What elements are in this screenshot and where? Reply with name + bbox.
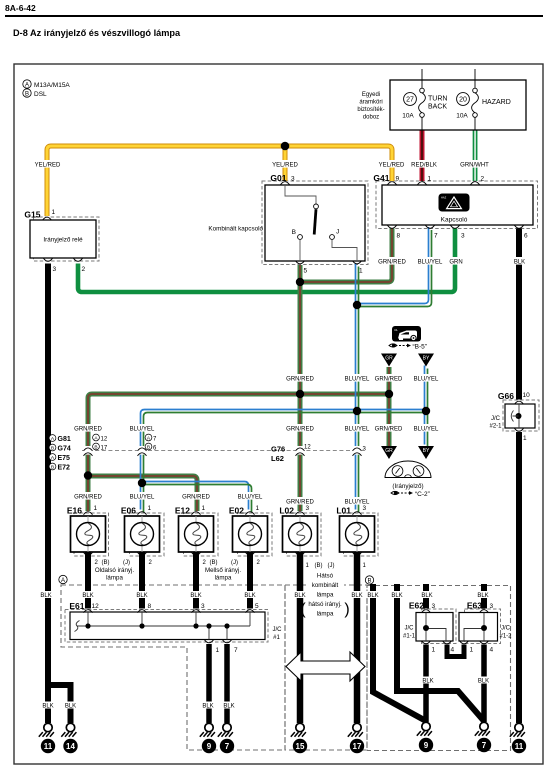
- svg-text:BY: BY: [423, 448, 430, 454]
- connector entry marks G01: [281, 182, 290, 185]
- svg-text:27: 27: [406, 97, 414, 104]
- svg-text:BLU/YEL: BLU/YEL: [238, 494, 263, 500]
- region B dashed boundary (DSL): [367, 586, 511, 751]
- svg-text:(B): (B): [102, 560, 110, 566]
- svg-text:9: 9: [396, 176, 400, 183]
- svg-text:lámpa: lámpa: [317, 611, 334, 618]
- wire label BLU/YEL (E06 drop): [128, 424, 156, 432]
- junction connector G66 box: [489, 391, 535, 442]
- svg-text:B: B: [51, 446, 54, 452]
- junction connector E62 box: [403, 601, 455, 654]
- wire label BLK (E61.1 lead): [201, 702, 215, 710]
- wire label BLK (E02 ground lead): [243, 591, 257, 599]
- svg-text:YEL/RED: YEL/RED: [35, 162, 61, 168]
- svg-text:3: 3: [201, 603, 205, 610]
- svg-text:G74: G74: [58, 445, 71, 452]
- lamp E02: [229, 505, 268, 552]
- connector pair G76/L62: [271, 445, 311, 464]
- ground 7 (E61): [218, 723, 234, 753]
- ground 11 right: [510, 723, 526, 753]
- connector list B G74: [49, 444, 71, 452]
- svg-text:(J): (J): [123, 560, 130, 566]
- wire label BLU/YEL (G41.7): [416, 257, 444, 265]
- fuse 20 HAZARD 10A: [456, 69, 511, 130]
- connector split dashed line (G81/G74/E75/E72 - G76/L62): [82, 450, 365, 452]
- pin note A12: [93, 434, 108, 442]
- ground 9 (E61): [200, 723, 216, 753]
- svg-text:GRN/RED: GRN/RED: [375, 426, 403, 432]
- wire label BLK (E62.3 stub): [420, 591, 434, 599]
- svg-text:doboz: doboz: [363, 115, 379, 121]
- svg-text:10A: 10A: [456, 113, 468, 120]
- wire label BLK (E63.3 stub): [476, 591, 490, 599]
- svg-text:BLK: BLK: [190, 593, 201, 599]
- svg-text:DSL: DSL: [34, 91, 47, 98]
- svg-text:3: 3: [432, 603, 436, 610]
- relay G15 box: [24, 209, 96, 273]
- svg-text:BLU/YEL: BLU/YEL: [130, 426, 155, 432]
- svg-text:A: A: [25, 82, 29, 88]
- svg-text:11: 11: [515, 742, 524, 751]
- wire label BLK (E63.4 lead): [477, 677, 491, 685]
- connector entry marks E61: [84, 610, 93, 613]
- svg-text:BLK: BLK: [294, 593, 305, 599]
- svg-text:#2-1: #2-1: [489, 424, 502, 430]
- wire label GRN/RED (E16): [74, 492, 102, 500]
- wire label BLU/YEL (L01): [343, 497, 371, 505]
- wire label BLU/YEL (L01 riser lower): [343, 424, 371, 432]
- bidirectional harness arrow: [286, 652, 365, 681]
- ground 17: [348, 723, 364, 753]
- svg-text:BLK: BLK: [65, 704, 76, 710]
- svg-text:GRN/RED: GRN/RED: [286, 499, 314, 505]
- svg-text:G41: G41: [373, 173, 389, 183]
- svg-text:3: 3: [363, 505, 367, 512]
- wire label BLK (E12 ground lead): [189, 591, 203, 599]
- wire BLK E06 to E61.8: [139, 552, 145, 609]
- rear lamp dashed boundary: [285, 585, 367, 750]
- svg-text:E75: E75: [58, 455, 71, 462]
- svg-text:GRN/RED: GRN/RED: [182, 494, 210, 500]
- svg-text:B: B: [367, 578, 371, 584]
- svg-text:10A: 10A: [402, 113, 414, 120]
- connector entry marks E62/E63: [422, 610, 431, 613]
- svg-text:14: 14: [66, 742, 75, 751]
- wire GRN/WHT (fuse 20 to G41.2): [474, 130, 477, 181]
- pin note B6: [145, 443, 157, 451]
- E63 dashed connector outline: [465, 609, 501, 644]
- svg-text:8: 8: [397, 233, 401, 240]
- svg-text:hátsó irányj.: hátsó irányj.: [308, 601, 342, 608]
- wire BLK G41.6 to G66.10: [516, 229, 522, 400]
- wire label GRN/RED (GR arrow upper): [375, 374, 403, 382]
- svg-text:1: 1: [94, 505, 98, 512]
- wire BLK G66.1 to ground 11 right: [516, 432, 522, 723]
- E61 dashed connector outline: [65, 610, 268, 643]
- svg-text:BLU/YEL: BLU/YEL: [345, 499, 370, 505]
- wire label BLU/YEL (BY arrow lower): [412, 424, 440, 432]
- svg-text:8: 8: [148, 603, 152, 610]
- svg-text:10: 10: [523, 392, 531, 399]
- svg-text:BLU/YEL: BLU/YEL: [414, 426, 439, 432]
- fuse 27 TURN BACK 10A: [402, 69, 447, 130]
- caption mellso iranyjelzo lampa: [205, 567, 241, 582]
- G41 dashed connector outline: [376, 181, 538, 229]
- svg-text:G76: G76: [271, 445, 285, 454]
- svg-text:BLK: BLK: [244, 593, 255, 599]
- wire label GRN/RED (G41.8): [378, 257, 406, 265]
- svg-text:BLK: BLK: [391, 593, 402, 599]
- svg-text:GRN/RED: GRN/RED: [375, 376, 403, 382]
- svg-text:E12: E12: [175, 506, 190, 516]
- connector arrow BY (to cluster C-2): [418, 446, 434, 459]
- svg-text:BLU/YEL: BLU/YEL: [345, 376, 370, 382]
- svg-text:15: 15: [296, 742, 305, 751]
- svg-text:B: B: [51, 465, 54, 471]
- ground 15: [291, 723, 307, 753]
- svg-text:lámpa: lámpa: [317, 592, 334, 599]
- combination switch G01 box: [208, 173, 365, 275]
- wire label BLU/YEL (E02): [236, 492, 264, 500]
- svg-text:7: 7: [225, 742, 230, 751]
- ground 14: [61, 723, 77, 753]
- wire BLK E16 to E61.12: [85, 552, 91, 609]
- svg-text:BACK: BACK: [428, 104, 447, 111]
- svg-text:GRN/RED: GRN/RED: [378, 259, 406, 265]
- eye reference to B-5: [389, 344, 427, 351]
- wire label BLK (E62.1 lead): [421, 677, 435, 685]
- svg-text:BY: BY: [423, 356, 430, 362]
- ground 7 (DSL): [475, 722, 491, 752]
- svg-text:#1-1: #1-1: [403, 634, 416, 640]
- svg-text:5: 5: [304, 268, 308, 275]
- svg-text:1: 1: [148, 505, 152, 512]
- wire label BLK (DSL stub 1): [366, 591, 380, 599]
- svg-text:1: 1: [470, 647, 474, 654]
- svg-text:B: B: [147, 445, 150, 451]
- svg-text:BLK: BLK: [202, 704, 213, 710]
- svg-text:): ): [344, 601, 349, 618]
- wire label BLK (ground 14 lead): [64, 702, 78, 710]
- svg-text:Kapcsoló: Kapcsoló: [441, 217, 468, 224]
- fuse box (Egyedi aramkori biztositek-doboz): [390, 80, 526, 130]
- svg-text:M13A/M15A: M13A/M15A: [34, 82, 70, 89]
- caption hatso kombinalt lampa: [300, 573, 349, 619]
- svg-text:BLK: BLK: [223, 704, 234, 710]
- wire YEL/RED main feed (G15.1 / G01.3 / G41.9): [47, 146, 392, 216]
- wire label GRN/RED (E12): [182, 492, 210, 500]
- svg-text:12: 12: [101, 436, 108, 442]
- svg-text:E61: E61: [69, 601, 84, 611]
- lamp pin texts L02 bottom: [306, 563, 335, 569]
- wire label YEL/RED (G01 feed): [271, 160, 299, 168]
- lamp E12 (mellso iranyjelzo): [175, 505, 214, 552]
- caption oldalso iranyjelzo lampa: [95, 567, 134, 582]
- svg-text:4: 4: [451, 647, 455, 654]
- region marker B: [365, 576, 373, 585]
- svg-text:3: 3: [490, 603, 494, 610]
- wire BLK stub to ground 9 (DSL): [373, 584, 426, 721]
- svg-text:1: 1: [359, 268, 363, 275]
- svg-text:Hátsó: Hátsó: [317, 573, 334, 580]
- svg-text:B: B: [25, 91, 29, 97]
- svg-text:J/C: J/C: [491, 416, 501, 422]
- connector arrow BY (from B-5): [418, 354, 434, 367]
- wire BLK stub to E63.3: [481, 584, 487, 609]
- svg-text:BLK: BLK: [422, 679, 433, 685]
- wire label BLK (E06 ground lead): [135, 591, 149, 599]
- svg-text:RED/BLK: RED/BLK: [411, 162, 437, 168]
- lamp L01 dashed outline: [344, 513, 379, 556]
- svg-text:E63: E63: [467, 601, 482, 611]
- junction on YEL/RED at G01.3: [281, 142, 290, 151]
- svg-text:12: 12: [304, 445, 311, 451]
- svg-text:#1: #1: [273, 635, 280, 641]
- lamp E02 dashed outline: [238, 513, 273, 556]
- lamp pin texts E16 bottom: [95, 560, 131, 566]
- connector list A E75: [49, 454, 70, 462]
- wire label BLK (L02 ground lead): [293, 591, 307, 599]
- connector arrow GR (to cluster C-2): [381, 446, 397, 459]
- svg-text:J: J: [336, 229, 339, 236]
- wire label BLK (DSL stub 2): [390, 591, 404, 599]
- svg-text:2: 2: [82, 266, 86, 273]
- svg-text:BLK: BLK: [82, 593, 93, 599]
- svg-text:B: B: [292, 229, 296, 236]
- wire BLK E63.4 to ground 7: [481, 645, 487, 723]
- svg-text:(J): (J): [231, 560, 238, 566]
- svg-text:A: A: [61, 578, 65, 584]
- svg-text:3: 3: [461, 233, 465, 240]
- svg-text:17: 17: [101, 445, 108, 451]
- svg-text:E16: E16: [67, 506, 82, 516]
- svg-text:BLU/YEL: BLU/YEL: [345, 426, 370, 432]
- svg-text:lámpa: lámpa: [215, 575, 232, 582]
- wire BLK G15.3 to grounds 11/14: [48, 264, 71, 724]
- region A dashed boundary (junction block area, petrol): [61, 585, 285, 750]
- ground 9 (DSL): [417, 722, 433, 752]
- svg-text:GR: GR: [385, 356, 393, 362]
- svg-text:GRN/RED: GRN/RED: [286, 376, 314, 382]
- wire label YEL/RED (G41.9): [378, 160, 406, 168]
- svg-text:4: 4: [490, 647, 494, 654]
- wire label GRN/RED (L02 riser upper): [286, 374, 314, 382]
- svg-text:(Irányjelző): (Irányjelző): [392, 483, 423, 490]
- svg-text:TURN: TURN: [428, 96, 447, 103]
- wire label BLK (E61.7 lead): [222, 702, 236, 710]
- junction dots on colored wires: [296, 278, 304, 286]
- svg-text:BLK: BLK: [40, 593, 51, 599]
- lamp E06: [121, 505, 160, 552]
- lamp E16 (oldalso iranyjelzo): [67, 505, 106, 552]
- wire label GRN/RED (L02 riser lower): [286, 424, 314, 432]
- svg-text:BLU/YEL: BLU/YEL: [418, 259, 443, 265]
- pin note A7: [145, 434, 157, 442]
- svg-text:12: 12: [92, 603, 100, 610]
- wire label BLK (L01 ground lead): [350, 591, 364, 599]
- region marker A: [59, 575, 67, 584]
- svg-text:GRN: GRN: [449, 259, 462, 265]
- wire BLK E61.7 to ground 7: [224, 644, 230, 723]
- wire label BLU/YEL (L01 riser upper): [343, 374, 371, 382]
- connector arrow GR (from B-5): [381, 354, 397, 367]
- wire label GRN (G41.3): [448, 257, 464, 265]
- instrument cluster icon (iranyjelzo): [385, 461, 431, 490]
- lamp E06 dashed outline: [130, 513, 165, 556]
- eye reference to C-2: [391, 491, 430, 498]
- wire label YEL/RED (G15 feed): [34, 160, 62, 168]
- wire label BLK (G41.6): [513, 257, 527, 265]
- svg-text:Mellső irányj.: Mellső irányj.: [205, 567, 241, 574]
- svg-text:#1-2: #1-2: [499, 634, 512, 640]
- svg-text:Oldalsó irányj.: Oldalsó irányj.: [95, 567, 134, 574]
- G01 dashed connector outline: [262, 181, 368, 265]
- lamp E12 dashed outline: [184, 513, 219, 556]
- svg-text:8A-6-42: 8A-6-42: [5, 3, 36, 13]
- connector entry marks G15: [43, 217, 52, 220]
- svg-text:lámpa: lámpa: [106, 575, 123, 582]
- svg-text:GRN/RED: GRN/RED: [286, 426, 314, 432]
- wire label BLK (E16 ground lead): [81, 591, 95, 599]
- svg-text:7: 7: [434, 233, 438, 240]
- svg-text:11: 11: [44, 742, 53, 751]
- harness split marks at dashed line: [83, 446, 93, 456]
- svg-text:(J): (J): [328, 563, 335, 569]
- connector list A G81: [49, 435, 71, 443]
- svg-text:(B): (B): [210, 560, 218, 566]
- wire BLK stub to E62.3: [423, 584, 429, 609]
- legend B DSL: [23, 89, 47, 98]
- svg-text:G66: G66: [498, 391, 514, 401]
- svg-text:L02: L02: [279, 506, 294, 516]
- svg-text:DL: DL: [395, 328, 399, 332]
- junction connector E61 box: [69, 601, 282, 654]
- G66 dashed connector outline: [503, 400, 539, 431]
- wire label GRN/RED (E16 drop): [74, 424, 102, 432]
- connector entry marks G41: [388, 182, 397, 185]
- wire label GRN/RED (L02): [286, 497, 314, 505]
- svg-text:9: 9: [207, 742, 212, 751]
- svg-text:E02: E02: [229, 506, 244, 516]
- svg-text:“C-2”: “C-2”: [415, 491, 430, 498]
- svg-text:17: 17: [353, 742, 362, 751]
- svg-text:(B): (B): [315, 563, 323, 569]
- svg-text:YEL/RED: YEL/RED: [379, 162, 405, 168]
- svg-text:(: (: [300, 601, 306, 618]
- svg-text:D-8 Az irányjelző és vészvillo: D-8 Az irányjelző és vészvillogó lámpa: [13, 28, 181, 38]
- svg-text:5: 5: [255, 603, 259, 610]
- svg-text:L62: L62: [271, 454, 284, 463]
- wire BLK E62.4 to E63.1 loop: [447, 645, 464, 657]
- svg-text:BLK: BLK: [478, 679, 489, 685]
- svg-text:20: 20: [459, 97, 467, 104]
- G15 dashed connector outline: [34, 217, 100, 261]
- svg-text:Kombinált kapcsoló: Kombinált kapcsoló: [208, 226, 263, 233]
- svg-text:BLK: BLK: [477, 593, 488, 599]
- wire label GRN/WHT (G41.2): [460, 160, 489, 168]
- connector exit marks lamps bottom: [84, 552, 93, 555]
- svg-text:E06: E06: [121, 506, 136, 516]
- svg-text:G81: G81: [58, 436, 71, 443]
- svg-text:BLK: BLK: [42, 704, 53, 710]
- svg-text:BLK: BLK: [421, 593, 432, 599]
- wire label GRN/RED (GR arrow lower): [375, 424, 403, 432]
- wire label BLK (G15.3 wire): [39, 591, 53, 599]
- hazard switch G41 box: [373, 173, 533, 240]
- svg-text:3: 3: [291, 176, 295, 183]
- svg-text:3: 3: [53, 266, 57, 273]
- svg-text:3: 3: [306, 505, 310, 512]
- svg-text:1: 1: [523, 435, 527, 442]
- pin note B17: [93, 443, 108, 451]
- svg-text:1: 1: [52, 209, 56, 216]
- wire BLU/YEL net (G01.1, G41.7, L01.3, E06, E02, cluster BY): [141, 227, 432, 513]
- header rule: [5, 15, 543, 17]
- svg-text:GRN/WHT: GRN/WHT: [460, 162, 489, 168]
- wire BLK E62.1 to ground 9: [423, 645, 429, 723]
- svg-text:GR: GR: [385, 448, 393, 454]
- lamp L02 (hatso iranyjelzo bal): [279, 505, 317, 552]
- svg-text:áramköri: áramköri: [359, 100, 382, 106]
- wire BLK E61.1 to ground 9: [206, 644, 212, 723]
- svg-text:L01: L01: [336, 506, 351, 516]
- lamp L01 (hatso iranyjelzo jobb): [336, 505, 374, 552]
- connector list B E72: [49, 463, 70, 471]
- wire label BLU/YEL (BY arrow upper): [412, 374, 440, 382]
- wire label BLK (ground 11 lead): [41, 702, 55, 710]
- svg-text:E62: E62: [409, 601, 424, 611]
- svg-text:HAZ: HAZ: [441, 196, 447, 200]
- svg-text:1: 1: [256, 505, 260, 512]
- svg-text:GRN/RED: GRN/RED: [74, 494, 102, 500]
- wire label BLU/YEL (E06): [128, 492, 156, 500]
- svg-text:HAZARD: HAZARD: [482, 99, 511, 106]
- wire RED/BLK (fuse 27 to G41.1): [420, 130, 425, 181]
- wire label RED/BLK (G41.1): [410, 160, 438, 168]
- lamp L02 dashed outline: [287, 513, 322, 556]
- svg-text:E72: E72: [58, 464, 71, 471]
- wire GRN (G15.2 to G41.3): [78, 229, 455, 293]
- svg-text:biztosíték-: biztosíték-: [357, 107, 384, 113]
- connector B-5 body icon: [392, 326, 421, 342]
- svg-text:BLK: BLK: [136, 593, 147, 599]
- svg-text:B: B: [94, 445, 97, 451]
- svg-text:7: 7: [234, 647, 238, 654]
- lamp E16 dashed outline: [74, 513, 109, 556]
- svg-text:Egyedi: Egyedi: [362, 92, 380, 98]
- svg-text:1: 1: [428, 176, 432, 183]
- svg-text:YEL/RED: YEL/RED: [272, 162, 298, 168]
- svg-text:J/C: J/C: [405, 626, 415, 632]
- svg-text:1: 1: [202, 505, 206, 512]
- svg-text:1: 1: [432, 647, 436, 654]
- svg-text:9: 9: [424, 741, 429, 750]
- connector entry marks lamps top: [84, 512, 93, 515]
- svg-text:7: 7: [482, 741, 487, 750]
- svg-text:G15: G15: [24, 210, 40, 220]
- wire BLK L02 to ground 15: [297, 552, 304, 723]
- wire BLK L01 to ground 17: [354, 552, 361, 723]
- svg-text:BLU/YEL: BLU/YEL: [414, 376, 439, 382]
- svg-text:BLK: BLK: [367, 593, 378, 599]
- svg-text:J/C: J/C: [273, 627, 283, 633]
- wire BLK stub to ground 7 (DSL): [397, 584, 484, 721]
- fuse box caption: [357, 92, 384, 121]
- wire BLK E12 to E61.3: [193, 552, 199, 609]
- svg-text:1: 1: [216, 647, 220, 654]
- svg-text:GRN/RED: GRN/RED: [74, 426, 102, 432]
- connector entry marks G66: [515, 401, 524, 404]
